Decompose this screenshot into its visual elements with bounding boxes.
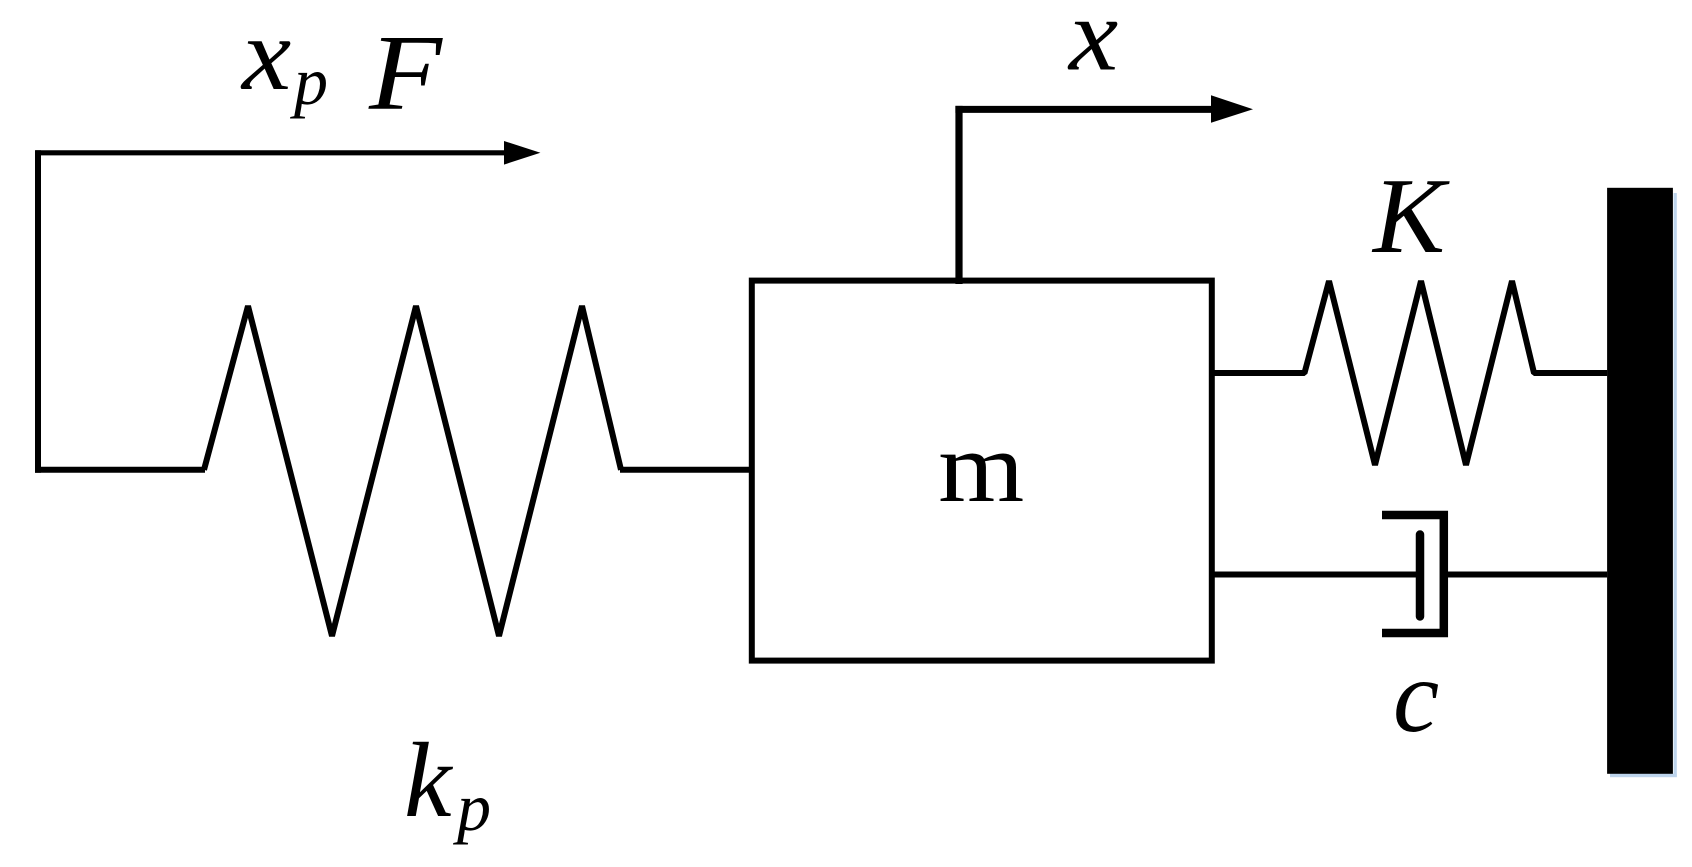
damper piston plate [1416, 535, 1425, 617]
spring kp [204, 306, 621, 636]
label kp [404, 722, 491, 845]
svg-text:x: x [1067, 0, 1118, 93]
label x_p (displacement of left end) [240, 0, 328, 119]
svg-text:k: k [404, 722, 454, 840]
wire left vertical [35, 150, 41, 473]
spring K (mass to wall) [1212, 281, 1607, 465]
wall (fixed support) [1607, 188, 1673, 774]
arrow F/xp direction [35, 141, 540, 165]
svg-text:c: c [1393, 639, 1439, 754]
damper cylinder cup [1382, 515, 1444, 633]
svg-text:m: m [938, 411, 1024, 523]
wire spring kp to mass [620, 467, 752, 473]
wall shadow right (light blue) [1674, 193, 1677, 777]
svg-text:F: F [368, 14, 443, 133]
damper rod left [1212, 572, 1416, 578]
wall shadow bottom (light blue) [1610, 774, 1677, 778]
svg-text:K: K [1371, 157, 1450, 276]
svg-text:p: p [453, 769, 491, 845]
svg-text:p: p [290, 43, 328, 119]
svg-text:x: x [240, 0, 291, 112]
mass box m [752, 281, 1212, 661]
damper rod right [1448, 572, 1607, 578]
arrow x (displacement of mass) [955, 95, 1253, 284]
wire bottom-left horizontal [35, 467, 205, 473]
